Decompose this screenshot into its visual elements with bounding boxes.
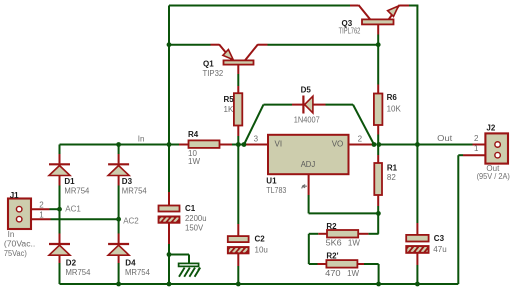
svg-text:C2: C2	[255, 234, 266, 243]
svg-text:C3: C3	[434, 234, 445, 243]
svg-text:5K6: 5K6	[326, 239, 343, 248]
svg-text:1: 1	[39, 210, 44, 219]
svg-text:MR754: MR754	[122, 187, 147, 196]
svg-text:U1: U1	[266, 176, 277, 185]
svg-text:D1: D1	[64, 177, 75, 186]
svg-text:TIP32: TIP32	[203, 69, 224, 78]
svg-text:AC2: AC2	[123, 216, 139, 225]
svg-text:MR754: MR754	[125, 268, 150, 277]
svg-text:R6: R6	[387, 93, 398, 102]
svg-text:D2: D2	[66, 259, 77, 268]
svg-text:J2: J2	[486, 124, 495, 133]
svg-text:1K: 1K	[224, 105, 234, 114]
svg-text:(95V / 2A): (95V / 2A)	[477, 172, 511, 181]
svg-text:Q1: Q1	[203, 60, 214, 69]
svg-text:3: 3	[254, 134, 259, 143]
svg-text:1: 1	[474, 144, 479, 153]
svg-text:TIPL762: TIPL762	[339, 27, 361, 36]
svg-text:In: In	[138, 134, 145, 143]
svg-text:R5: R5	[224, 95, 235, 104]
svg-text:MR754: MR754	[66, 268, 91, 277]
svg-text:D3: D3	[122, 177, 133, 186]
svg-text:D5: D5	[301, 85, 312, 94]
svg-text:Out: Out	[437, 134, 453, 143]
svg-text:VO: VO	[332, 140, 344, 149]
svg-text:R2': R2'	[326, 252, 338, 261]
svg-text:ADJ: ADJ	[301, 160, 316, 169]
svg-text:(70Vac..: (70Vac..	[4, 239, 35, 248]
svg-text:1W: 1W	[348, 239, 360, 248]
svg-text:R1: R1	[387, 164, 398, 173]
svg-text:D4: D4	[125, 259, 136, 268]
svg-text:1N4007: 1N4007	[294, 115, 321, 124]
svg-text:10u: 10u	[255, 246, 268, 255]
svg-text:C1: C1	[185, 204, 196, 213]
svg-text:R2: R2	[326, 222, 337, 231]
svg-text:150V: 150V	[185, 223, 204, 232]
svg-text:2: 2	[39, 200, 44, 209]
svg-text:47u: 47u	[433, 245, 446, 254]
svg-text:MR754: MR754	[64, 187, 89, 196]
svg-text:1W: 1W	[188, 157, 200, 166]
svg-text:82: 82	[387, 173, 396, 182]
svg-text:VI: VI	[275, 140, 283, 149]
svg-text:TL783: TL783	[266, 186, 286, 195]
svg-text:AC1: AC1	[65, 205, 81, 214]
svg-text:R4: R4	[188, 130, 199, 139]
svg-text:2200u: 2200u	[185, 214, 207, 223]
svg-text:470: 470	[325, 269, 341, 278]
svg-text:1W: 1W	[347, 269, 359, 278]
svg-text:2: 2	[474, 134, 479, 143]
svg-text:75Vac): 75Vac)	[4, 249, 27, 258]
svg-text:In: In	[8, 230, 15, 239]
svg-text:2: 2	[358, 134, 363, 143]
svg-text:J1: J1	[10, 191, 19, 200]
svg-text:10K: 10K	[387, 105, 402, 114]
